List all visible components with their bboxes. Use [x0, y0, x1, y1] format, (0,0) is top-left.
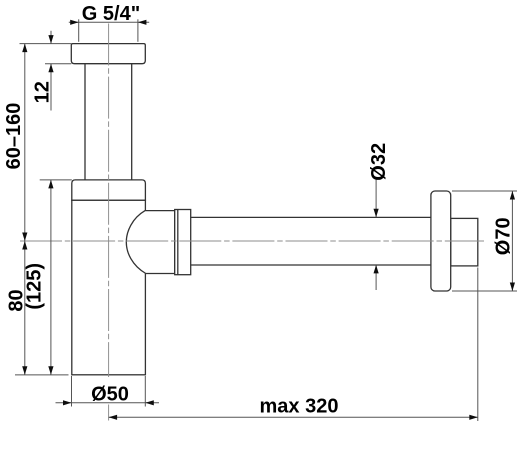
svg-text:12: 12	[32, 81, 54, 103]
svg-text:max 320: max 320	[260, 395, 339, 417]
svg-text:(125): (125)	[24, 263, 46, 310]
svg-text:G 5/4": G 5/4"	[82, 3, 140, 25]
svg-text:Ø50: Ø50	[91, 383, 129, 405]
svg-text:Ø70: Ø70	[493, 217, 515, 255]
svg-text:Ø32: Ø32	[368, 143, 390, 181]
svg-text:60–160: 60–160	[3, 103, 25, 170]
